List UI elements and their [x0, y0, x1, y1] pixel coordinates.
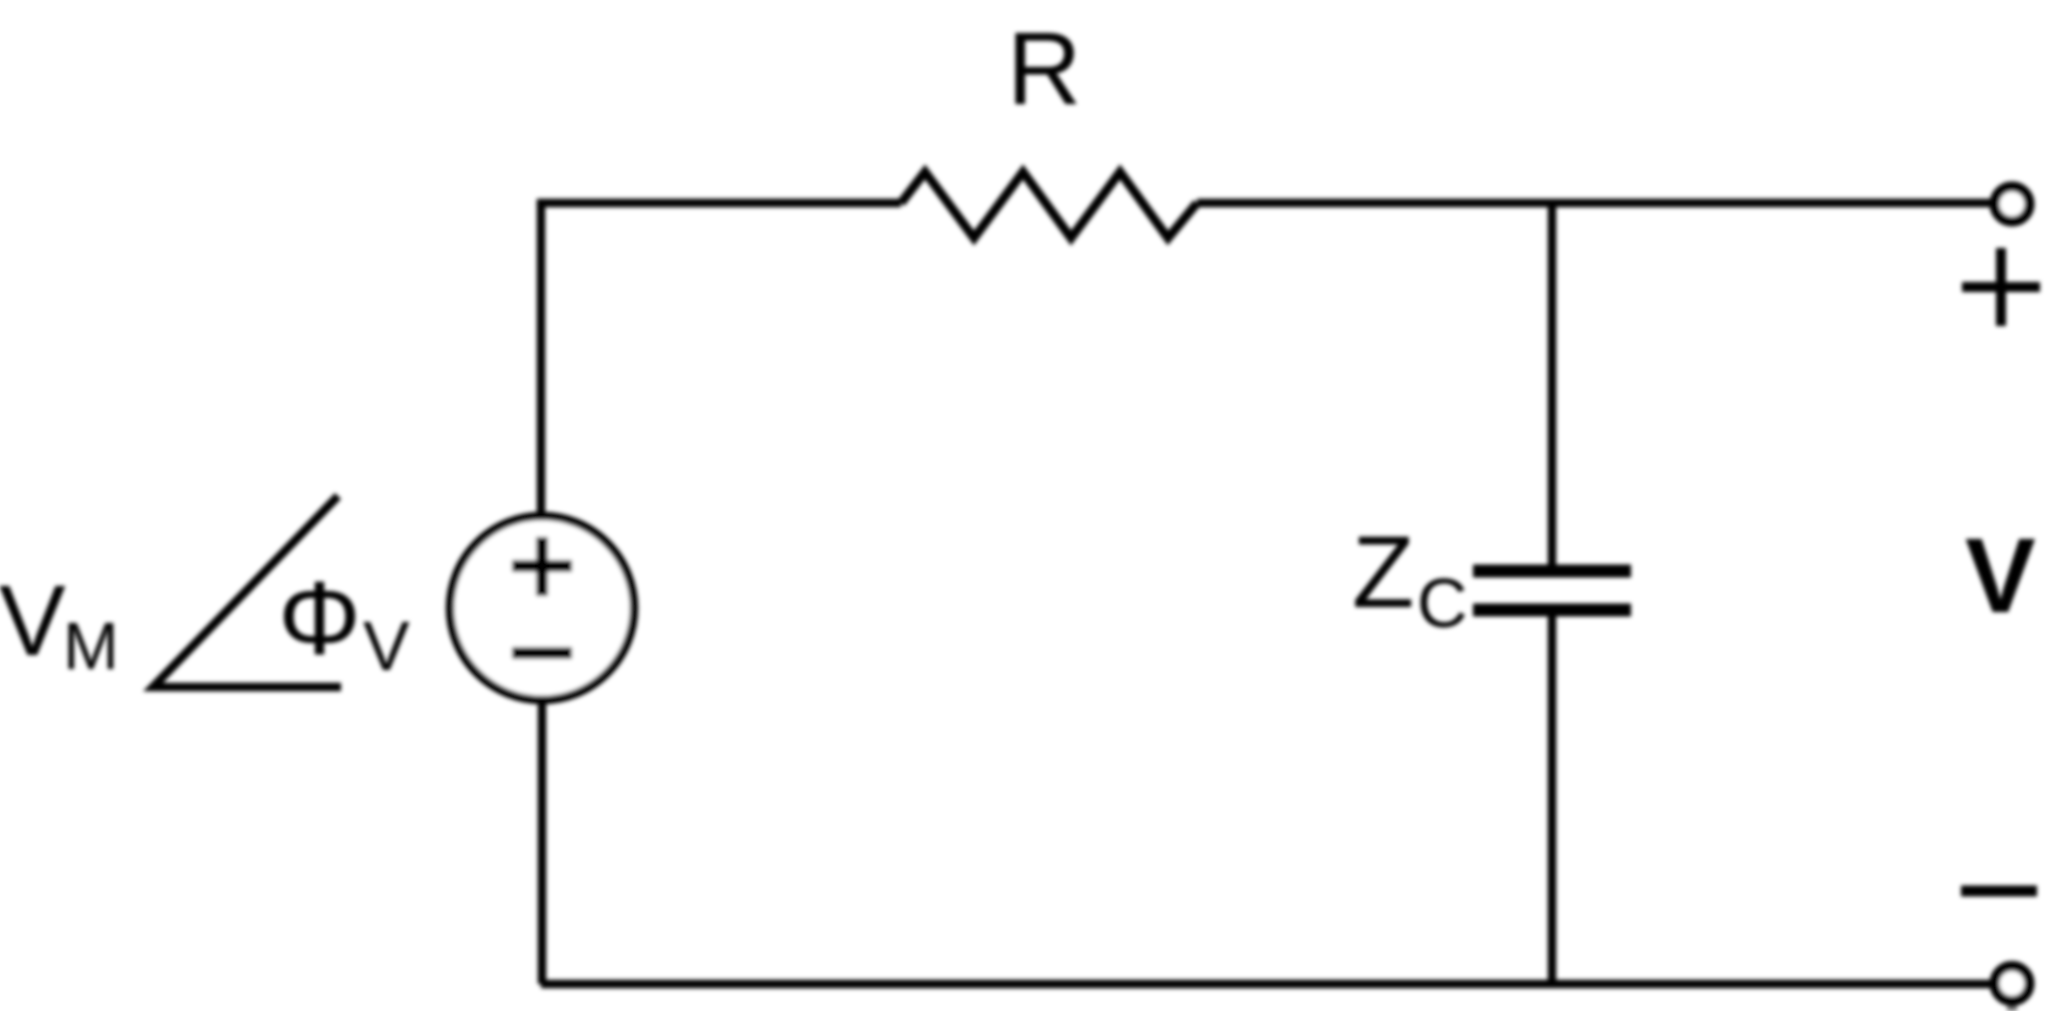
voltage source polarity minus — [512, 647, 572, 659]
angle symbol — [153, 496, 341, 687]
svg-text:R: R — [1007, 11, 1081, 126]
wire: bottom return from source to output - terminal — [541, 980, 1994, 989]
wire: left vertical lead into source + terminal top — [537, 203, 546, 518]
wire: source bottom lead — [538, 698, 547, 984]
svg-text:Φ: Φ — [278, 561, 361, 677]
terminal: output - (bottom right, open circle) — [1995, 966, 2030, 1001]
stub below bottom terminal (cropped wire) — [2007, 1002, 2017, 1011]
terminal: output + (top right, open circle) — [1995, 187, 2030, 222]
wire: capacitor bottom lead to bottom wire — [1548, 615, 1557, 984]
capacitor ZC bottom plate — [1473, 604, 1631, 617]
svg-text:V: V — [363, 607, 410, 685]
capacitor ZC top plate — [1473, 565, 1631, 578]
voltage source polarity plus — [512, 537, 572, 596]
voltage source VS body — [450, 516, 634, 700]
svg-text:M: M — [63, 609, 119, 684]
wire: top lead from source top-left corner to resistor — [541, 203, 901, 207]
label: output polarity minus — [1961, 886, 2037, 897]
wire: resistor to output + terminal — [1197, 199, 1994, 208]
svg-text:C: C — [1417, 564, 1468, 642]
wire: capacitor top lead from top wire — [1548, 203, 1557, 566]
resistor R (zigzag) — [901, 172, 1197, 238]
label: output polarity + — [1962, 248, 2040, 326]
svg-text:V: V — [1965, 517, 2036, 635]
svg-text:V: V — [0, 565, 66, 677]
svg-text:Z: Z — [1352, 515, 1414, 629]
